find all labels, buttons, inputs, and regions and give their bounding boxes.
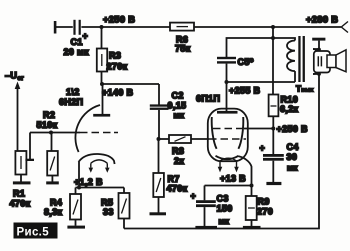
pentode control grid g1 dashes xyxy=(209,138,246,140)
resistor R6 xyxy=(170,23,194,31)
capacitor C3 xyxy=(204,186,206,201)
svg-text:+: + xyxy=(83,31,89,41)
resistor R3 xyxy=(101,27,103,49)
svg-text:C3: C3 xyxy=(217,194,229,204)
resistor R4 xyxy=(75,188,77,195)
svg-text:C1: C1 xyxy=(71,37,83,47)
resistor R5 xyxy=(123,188,125,194)
svg-text:470к: 470к xyxy=(10,199,31,209)
triode heater xyxy=(91,160,108,163)
resistor R8 xyxy=(159,138,170,140)
svg-text:8,3к: 8,3к xyxy=(44,207,63,217)
pentode envelope xyxy=(208,109,248,162)
resistor R1 xyxy=(15,151,26,175)
svg-text:мк: мк xyxy=(174,111,185,120)
svg-text:30: 30 xyxy=(287,152,298,162)
pentode heater xyxy=(220,158,237,161)
svg-text:+255 В: +255 В xyxy=(229,86,261,96)
resistor R9 xyxy=(251,186,253,197)
svg-text:+1,2 В: +1,2 В xyxy=(74,177,103,187)
triode anode xyxy=(102,84,104,114)
svg-text:20 мк: 20 мк xyxy=(64,47,90,57)
node screen +250V xyxy=(271,127,275,131)
svg-text:R4: R4 xyxy=(50,198,62,208)
svg-text:6Н2П: 6Н2П xyxy=(59,97,83,107)
capacitor C5 xyxy=(217,57,236,59)
transformer secondary xyxy=(313,49,319,74)
node B+ tap xyxy=(271,25,275,29)
terminal +280V arrow xyxy=(341,22,348,33)
transformer primary xyxy=(273,38,295,41)
figure label Рис.5 xyxy=(14,223,58,239)
svg-text:R10: R10 xyxy=(281,95,299,105)
svg-text:R5: R5 xyxy=(101,198,113,208)
svg-text:1\2: 1\2 xyxy=(66,87,80,97)
triode grid dashes xyxy=(80,132,118,134)
wire anode1 to C2 xyxy=(102,83,159,85)
svg-text:270: 270 xyxy=(257,207,273,217)
svg-text:+: + xyxy=(191,191,197,201)
svg-text:510к: 510к xyxy=(37,120,58,130)
wire feedback bottom xyxy=(124,74,319,229)
pentode anode xyxy=(226,82,228,111)
transformer core xyxy=(298,36,300,82)
svg-text:+280 В: +280 В xyxy=(306,15,338,25)
svg-text:Рис.5: Рис.5 xyxy=(17,227,50,239)
svg-text:+13 В: +13 В xyxy=(220,174,246,184)
svg-text:R9: R9 xyxy=(258,197,270,207)
capacitor C2 xyxy=(150,104,169,106)
triode cathode xyxy=(79,154,115,164)
speaker xyxy=(317,72,321,76)
svg-text:C2: C2 xyxy=(172,91,184,101)
svg-text:R2: R2 xyxy=(43,110,55,120)
svg-text:C5*: C5* xyxy=(238,57,254,67)
svg-text:R7: R7 xyxy=(168,174,180,184)
svg-text:R3: R3 xyxy=(109,51,121,61)
terminal left supply xyxy=(54,21,57,34)
svg-text:6,2к: 6,2к xyxy=(280,104,299,114)
svg-text:сг: сг xyxy=(18,76,25,82)
svg-text:+250 В: +250 В xyxy=(103,15,135,25)
svg-text:+140 В: +140 В xyxy=(102,88,134,98)
svg-text:R8: R8 xyxy=(172,146,184,156)
svg-text:мк: мк xyxy=(219,217,230,226)
svg-text:150: 150 xyxy=(217,204,233,214)
triode envelope arc xyxy=(75,105,100,152)
ground under R7 xyxy=(150,212,167,215)
capacitor C1 xyxy=(73,20,82,36)
svg-text:6П1П: 6П1П xyxy=(196,94,220,104)
resistor R2 xyxy=(51,133,53,152)
wire grid1 xyxy=(30,132,80,134)
wire anode2 to primary xyxy=(227,81,296,83)
svg-text:–U: –U xyxy=(5,71,17,81)
svg-text:75к: 75к xyxy=(175,44,191,54)
node grid2 junction xyxy=(157,137,161,141)
wire C5 bracket xyxy=(227,38,274,57)
pentode beam plates xyxy=(212,117,217,149)
svg-text:470к: 470к xyxy=(167,184,188,194)
svg-text:+: + xyxy=(260,143,266,153)
resistor R7 xyxy=(158,139,160,173)
svg-text:мк: мк xyxy=(287,164,298,173)
chassis ground secondary xyxy=(312,38,325,41)
svg-text:2к: 2к xyxy=(174,156,184,166)
svg-text:0,15: 0,15 xyxy=(168,101,187,111)
svg-text:C4: C4 xyxy=(287,142,299,152)
wire +B rail xyxy=(56,26,341,28)
svg-text:270к: 270к xyxy=(107,62,128,72)
svg-text:33: 33 xyxy=(103,207,114,217)
capacitor C4 xyxy=(263,154,284,157)
pentode cathode xyxy=(216,156,239,159)
R1 tap xyxy=(29,133,31,160)
resistor R10 xyxy=(272,38,274,95)
node anode1 +140V xyxy=(100,82,104,86)
svg-text:R1: R1 xyxy=(13,189,25,199)
svg-text:+250 В: +250 В xyxy=(277,124,309,134)
pentode screen grid g2 xyxy=(213,128,243,130)
node anode2 +255V xyxy=(225,80,229,84)
